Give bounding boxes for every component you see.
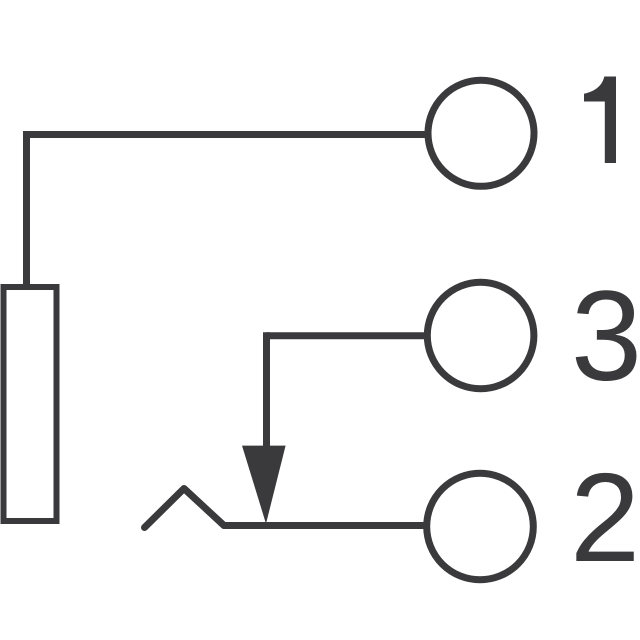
terminal circle pin 1 [428, 80, 534, 186]
terminal circle pin 2 [427, 473, 534, 580]
svg-text:3: 3 [571, 265, 640, 408]
wire: horizontal to terminal 1 [23, 131, 426, 138]
wire: vertical arrow stem down from terminal 3 wire [263, 332, 270, 447]
pin label 1 [584, 77, 616, 164]
wire: horizontal from switch arm to terminal 2 [224, 522, 425, 529]
wire: horizontal from terminal 3 [267, 332, 426, 339]
svg-text:2: 2 [570, 447, 640, 588]
switch contact arm (tip spring) [145, 489, 225, 528]
switch actuator arrowhead (plug insertion action) [242, 446, 286, 524]
wire: vertical from sleeve body up [23, 135, 30, 288]
terminal circle pin 3 [427, 282, 534, 389]
connector body J1 (jack sleeve barrel) [4, 287, 57, 521]
